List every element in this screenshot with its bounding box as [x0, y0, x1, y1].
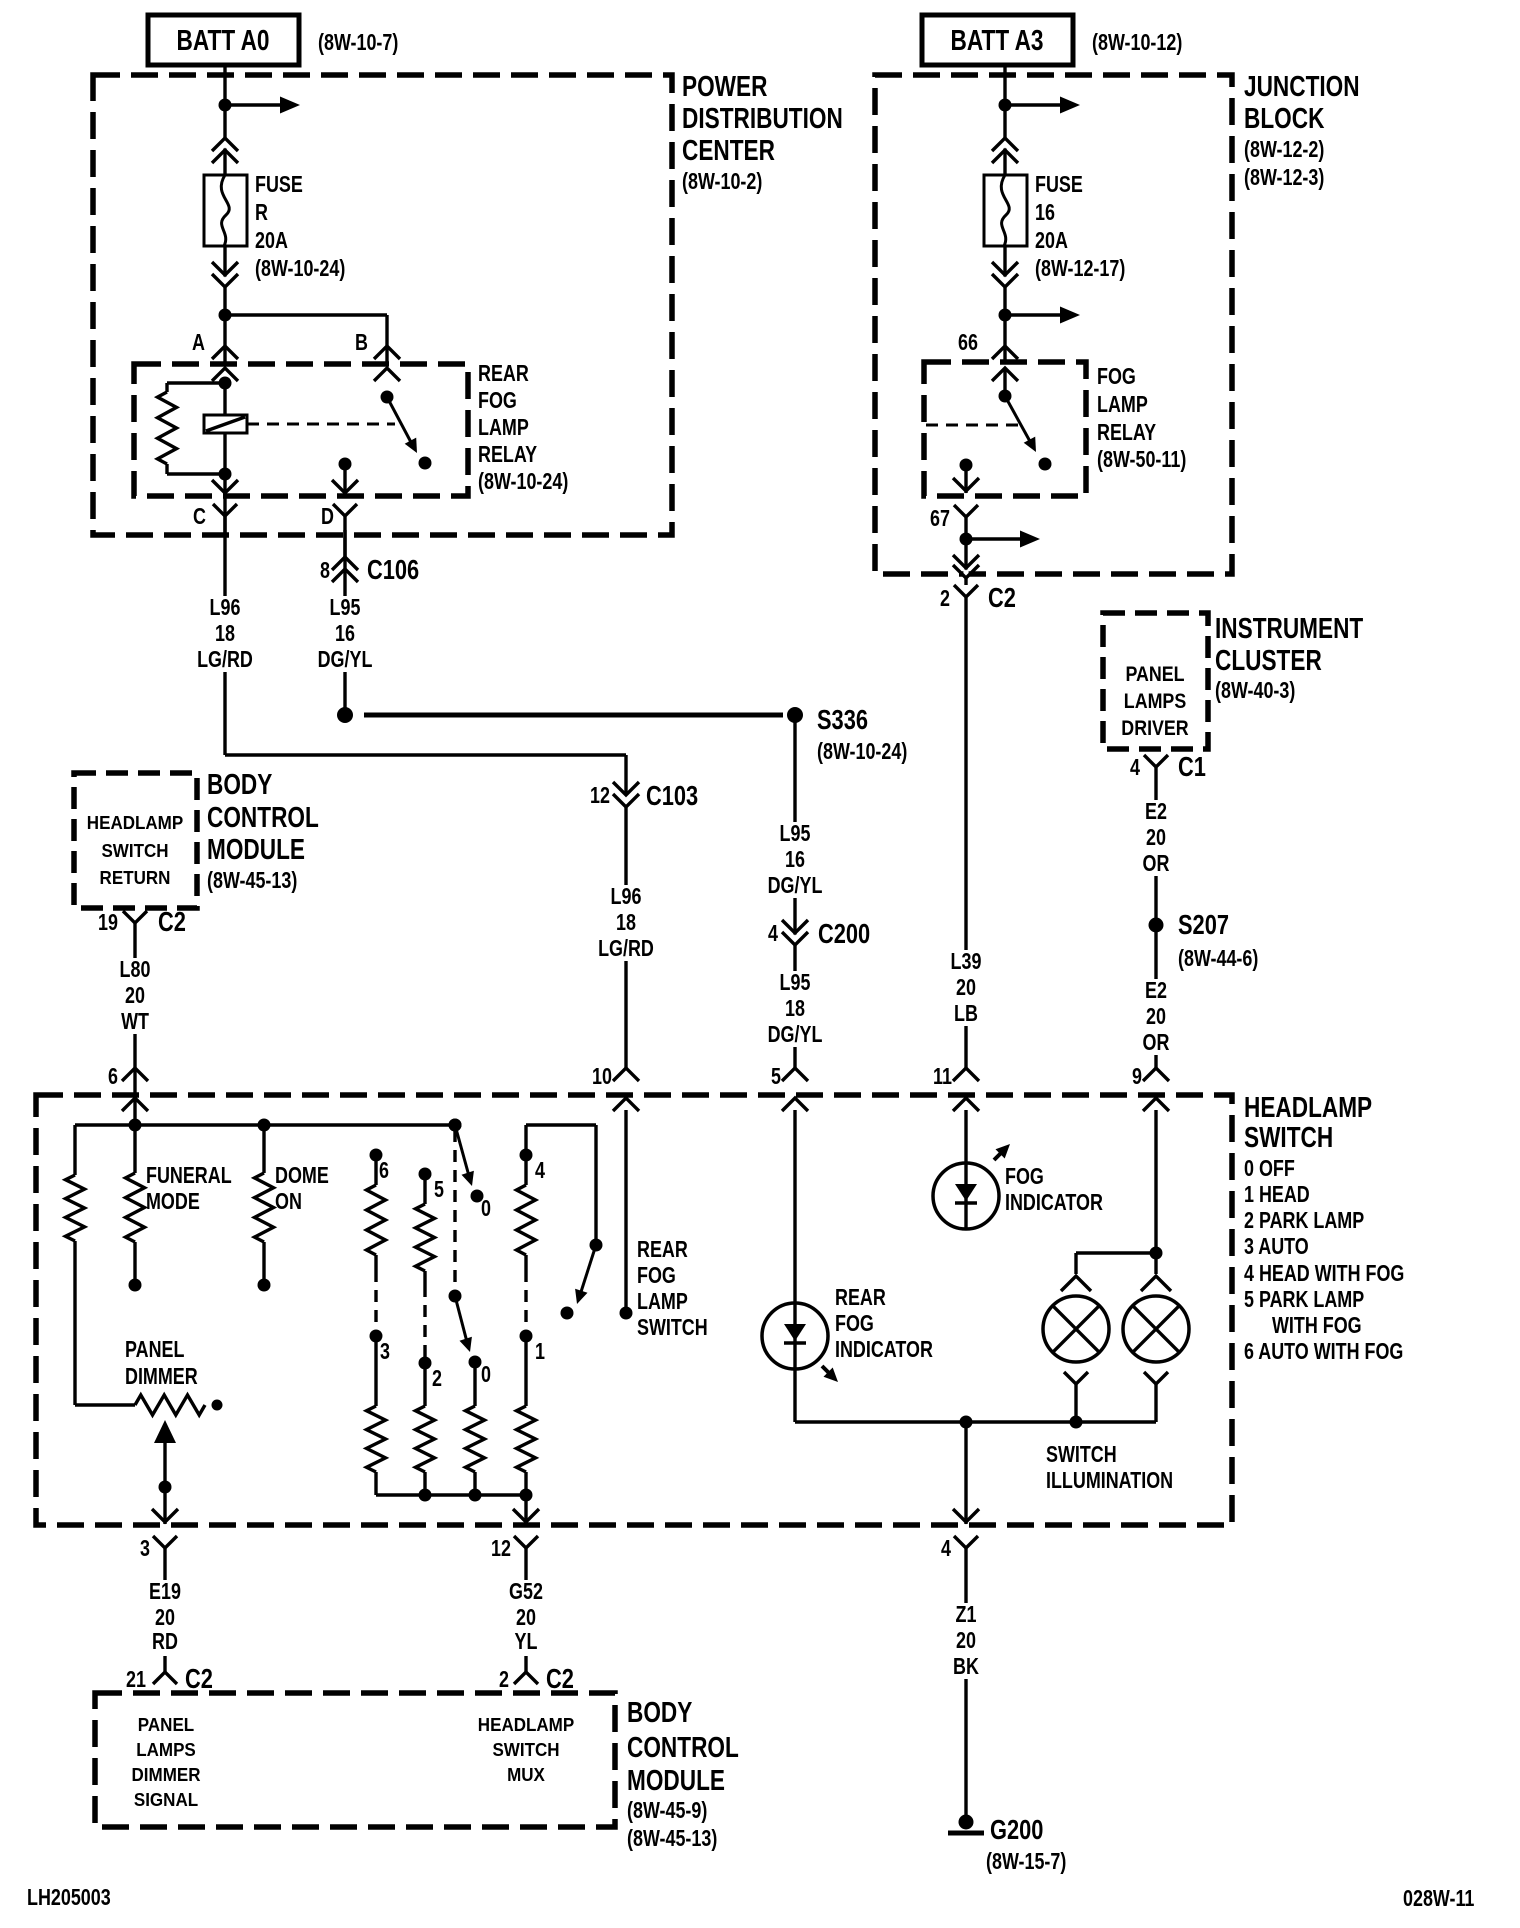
- svg-text:FOG: FOG: [835, 1311, 874, 1337]
- wire supply bus: [133, 1070, 136, 1125]
- svg-text:20: 20: [155, 1605, 175, 1631]
- lamp right connector top: [1154, 1253, 1157, 1274]
- svg-text:3 AUTO: 3 AUTO: [1244, 1234, 1309, 1260]
- svg-text:L39: L39: [951, 949, 982, 975]
- svg-text:3: 3: [380, 1339, 390, 1365]
- connector double chevron down: [1002, 277, 1007, 286]
- connector double chevron down: [222, 277, 227, 286]
- svg-text:16: 16: [785, 847, 805, 873]
- resistor bleed: [73, 1125, 76, 1175]
- resistor position 6/3: [370, 1149, 383, 1162]
- svg-text:FUSE: FUSE: [255, 172, 303, 198]
- svg-text:C: C: [193, 504, 206, 530]
- wire bus2 to rear fog switch: [526, 1123, 596, 1126]
- svg-text:CENTER: CENTER: [682, 133, 775, 166]
- svg-text:E19: E19: [149, 1579, 181, 1605]
- label wire L96 18 LG/RD: [195, 596, 257, 672]
- wire E19 down: [163, 1562, 166, 1660]
- svg-text:5 PARK LAMP: 5 PARK LAMP: [1244, 1287, 1364, 1313]
- pin B inside chevron: [374, 368, 400, 381]
- svg-text:L95: L95: [780, 821, 811, 847]
- wire resistor output bus: [376, 1493, 526, 1496]
- svg-text:LAMPS: LAMPS: [136, 1739, 196, 1760]
- svg-text:11: 11: [933, 1064, 952, 1090]
- rotary switch position column 0 upper: [449, 1119, 462, 1132]
- svg-text:CLUSTER: CLUSTER: [1215, 643, 1322, 676]
- wire L95 from C106: [343, 530, 346, 715]
- svg-text:HEADLAMP: HEADLAMP: [1244, 1090, 1372, 1123]
- svg-text:SWITCH: SWITCH: [101, 840, 168, 861]
- switch arm mid: [455, 1296, 467, 1342]
- wire L80 down: [133, 937, 136, 1070]
- svg-text:DG/YL: DG/YL: [768, 873, 823, 899]
- svg-text:19: 19: [98, 910, 118, 936]
- node splice after fuse: [219, 309, 232, 322]
- svg-text:20: 20: [1146, 1004, 1166, 1030]
- svg-text:G52: G52: [509, 1579, 543, 1605]
- svg-text:PANEL: PANEL: [125, 1337, 184, 1363]
- svg-text:FOG: FOG: [637, 1263, 676, 1289]
- svg-text:B: B: [355, 330, 368, 356]
- relay contact: [419, 457, 432, 470]
- label wire L95 16 DG/YL: [312, 596, 380, 672]
- svg-text:(8W-45-13): (8W-45-13): [627, 1826, 717, 1852]
- resistor DOME ON: [262, 1125, 265, 1173]
- svg-text:(8W-12-3): (8W-12-3): [1244, 165, 1324, 191]
- label wire E19 20 RD: [138, 1580, 192, 1656]
- node out bus 3: [469, 1489, 482, 1502]
- svg-text:20: 20: [1146, 825, 1166, 851]
- wire mux out to pin 12: [524, 1495, 527, 1524]
- svg-text:MUX: MUX: [507, 1764, 545, 1785]
- svg-text:(8W-10-12): (8W-10-12): [1092, 30, 1182, 56]
- rear fog switch pivot: [590, 1239, 603, 1252]
- contact 0 upper: [471, 1190, 484, 1203]
- svg-text:(8W-50-11): (8W-50-11): [1097, 447, 1186, 473]
- svg-text:SWITCH: SWITCH: [637, 1315, 708, 1341]
- dashed actuation link: [926, 424, 1020, 427]
- svg-text:OR: OR: [1143, 851, 1170, 877]
- box POWER DISTRIBUTION CENTER (dashed): [93, 75, 672, 535]
- svg-text:E2: E2: [1145, 799, 1167, 825]
- node bus left: [129, 1119, 142, 1132]
- svg-text:5: 5: [771, 1064, 781, 1090]
- wire pin 10 to rear fog switch: [624, 1110, 627, 1313]
- svg-text:DIMMER: DIMMER: [125, 1364, 198, 1390]
- svg-text:RELAY: RELAY: [478, 442, 537, 468]
- contact 0 mid: [469, 1356, 482, 1369]
- svg-text:(8W-40-3): (8W-40-3): [1215, 678, 1295, 704]
- dashed actuation link: [247, 423, 395, 426]
- svg-text:21: 21: [126, 1667, 146, 1693]
- svg-text:12: 12: [491, 1536, 511, 1562]
- svg-text:2 PARK LAMP: 2 PARK LAMP: [1244, 1208, 1364, 1234]
- svg-text:1 HEAD: 1 HEAD: [1244, 1182, 1310, 1208]
- wire Z1 to ground: [964, 1562, 967, 1822]
- svg-text:PANEL: PANEL: [138, 1714, 195, 1735]
- wire pin 9 to lamps: [1154, 1110, 1157, 1253]
- svg-text:2: 2: [940, 586, 950, 612]
- svg-text:YL: YL: [515, 1629, 538, 1655]
- svg-text:(8W-10-24): (8W-10-24): [478, 469, 568, 495]
- svg-text:PANEL: PANEL: [1125, 663, 1184, 687]
- svg-text:RELAY: RELAY: [1097, 420, 1156, 446]
- fuse R 20A: [204, 175, 247, 246]
- svg-text:1: 1: [535, 1339, 545, 1365]
- label wire L80 20 WT: [108, 958, 162, 1034]
- arrow rear fog indicator pointer: [822, 1366, 833, 1377]
- svg-text:4 HEAD WITH FOG: 4 HEAD WITH FOG: [1244, 1261, 1404, 1287]
- svg-text:18: 18: [785, 996, 805, 1022]
- svg-text:DOME: DOME: [275, 1163, 329, 1189]
- panel dimmer wiper contact: [212, 1400, 223, 1411]
- svg-text:REAR: REAR: [637, 1237, 688, 1263]
- svg-text:C2: C2: [988, 582, 1016, 613]
- wire illumination return bus: [793, 1369, 796, 1422]
- svg-text:4: 4: [1130, 755, 1140, 781]
- svg-text:C106: C106: [367, 554, 419, 585]
- rear fog switch arm: [580, 1245, 596, 1295]
- indicator REAR FOG INDICATOR: [793, 1110, 796, 1303]
- relay coil suppression resistor: [167, 381, 225, 384]
- svg-text:DG/YL: DG/YL: [318, 647, 373, 673]
- rear fog switch contact: [561, 1307, 574, 1320]
- svg-text:INDICATOR: INDICATOR: [1005, 1190, 1103, 1216]
- node splice top-right: [999, 99, 1012, 112]
- pin 66 inside chevron: [992, 368, 1018, 381]
- svg-text:10: 10: [592, 1064, 612, 1090]
- node out bus 4: [520, 1489, 533, 1502]
- svg-text:20: 20: [956, 975, 976, 1001]
- fog relay switch arm: [1005, 396, 1032, 445]
- label wire L95 16 DG/YL mid: [760, 822, 830, 898]
- box BODY CONTROL MODULE headlamp switch return (dashed): [74, 773, 197, 908]
- svg-text:2: 2: [499, 1667, 509, 1693]
- arrow feed continues right: [225, 103, 280, 106]
- svg-text:D: D: [321, 504, 334, 530]
- svg-text:C2: C2: [546, 1663, 574, 1694]
- svg-text:20A: 20A: [255, 228, 288, 254]
- svg-text:6: 6: [379, 1158, 389, 1184]
- wire L96 down from pin C: [223, 530, 226, 755]
- svg-text:WITH FOG: WITH FOG: [1272, 1313, 1362, 1339]
- resistor position 5/2: [419, 1168, 432, 1181]
- wire splice bus to S336: [364, 713, 783, 718]
- svg-text:(8W-10-24): (8W-10-24): [255, 256, 345, 282]
- svg-text:MODULE: MODULE: [207, 832, 305, 865]
- svg-text:LAMP: LAMP: [1097, 392, 1148, 418]
- svg-text:LG/RD: LG/RD: [197, 647, 253, 673]
- splice S336: [787, 707, 803, 723]
- label wire Z1 20 BK: [940, 1603, 992, 1679]
- node return lamp: [1070, 1416, 1083, 1429]
- svg-text:REAR: REAR: [835, 1285, 886, 1311]
- svg-text:C1: C1: [1178, 751, 1206, 782]
- arrow branch right from 67: [966, 537, 1020, 540]
- svg-text:REAR: REAR: [478, 361, 529, 387]
- box INSTRUMENT CLUSTER panel lamps driver (dashed): [1103, 613, 1208, 749]
- relay switch arm: [387, 397, 413, 446]
- label wire L39 20 LB: [938, 950, 994, 1026]
- svg-text:FOG: FOG: [1005, 1164, 1044, 1190]
- svg-text:JUNCTION: JUNCTION: [1244, 69, 1360, 102]
- label wire L96 18 LG/RD lower: [576, 885, 676, 961]
- resistor FUNERAL MODE: [133, 1125, 136, 1173]
- svg-text:4: 4: [768, 921, 778, 947]
- node junction to S336 bus: [337, 707, 353, 723]
- node out bus 2: [419, 1489, 432, 1502]
- svg-text:4: 4: [535, 1158, 545, 1184]
- box HEADLAMP SWITCH (dashed): [36, 1095, 1232, 1525]
- svg-text:BODY: BODY: [627, 1695, 692, 1728]
- box BODY CONTROL MODULE bottom (dashed): [95, 1693, 615, 1827]
- svg-text:POWER: POWER: [682, 69, 768, 102]
- svg-text:FOG: FOG: [478, 388, 517, 414]
- svg-text:G200: G200: [990, 1814, 1043, 1845]
- svg-text:BLOCK: BLOCK: [1244, 101, 1325, 134]
- lamp switch illumination left: [1043, 1296, 1109, 1362]
- svg-text:C2: C2: [158, 906, 186, 937]
- svg-text:WT: WT: [121, 1009, 149, 1035]
- svg-text:LH205003: LH205003: [27, 1885, 111, 1911]
- svg-text:66: 66: [958, 330, 978, 356]
- svg-text:A: A: [192, 330, 205, 356]
- node bus switch: [449, 1119, 462, 1132]
- svg-text:0 OFF: 0 OFF: [1244, 1156, 1295, 1182]
- svg-text:HEADLAMP: HEADLAMP: [478, 1714, 575, 1735]
- svg-text:BODY: BODY: [207, 767, 272, 800]
- svg-text:L95: L95: [780, 970, 811, 996]
- relay coil K1: [223, 383, 226, 415]
- resistor position 4/1: [524, 1125, 527, 1155]
- svg-text:C2: C2: [185, 1663, 213, 1694]
- wire L96 horizontal run to C103: [225, 753, 626, 756]
- svg-text:3: 3: [140, 1536, 150, 1562]
- node relay output D: [339, 458, 352, 471]
- svg-text:MODULE: MODULE: [627, 1763, 725, 1796]
- svg-text:9: 9: [1132, 1064, 1142, 1090]
- svg-text:20: 20: [956, 1628, 976, 1654]
- svg-text:SIGNAL: SIGNAL: [134, 1789, 198, 1810]
- splice S207: [1149, 918, 1164, 933]
- wire L95 from S336 down: [793, 715, 796, 1070]
- svg-text:(8W-10-2): (8W-10-2): [682, 169, 762, 195]
- wire wiper out to pin 3: [163, 1487, 166, 1524]
- pin A inside chevron: [212, 368, 238, 381]
- svg-text:6: 6: [108, 1064, 118, 1090]
- svg-text:(8W-45-9): (8W-45-9): [627, 1798, 707, 1824]
- svg-text:C103: C103: [646, 780, 698, 811]
- svg-text:HEADLAMP: HEADLAMP: [87, 812, 184, 833]
- connector double chevron up: [222, 140, 227, 149]
- wire G52 down: [524, 1562, 527, 1660]
- arrow feed continues right: [1005, 103, 1060, 106]
- svg-text:2: 2: [432, 1366, 442, 1392]
- svg-text:LAMP: LAMP: [637, 1289, 688, 1315]
- lamp left connector bottom: [1064, 1372, 1088, 1384]
- ground G200: [959, 1815, 974, 1830]
- svg-text:20: 20: [125, 983, 145, 1009]
- label wire E2 20 OR upper: [1130, 800, 1182, 876]
- wire L96 to headlamp switch: [624, 807, 627, 1070]
- svg-text:BK: BK: [953, 1654, 979, 1680]
- label wire E2 20 OR lower: [1130, 979, 1182, 1055]
- switch arm upper: [455, 1125, 469, 1176]
- label wire L95 18 DG/YL lower: [760, 971, 830, 1047]
- svg-text:FUSE: FUSE: [1035, 172, 1083, 198]
- svg-text:S336: S336: [817, 704, 868, 735]
- svg-text:FUNERAL: FUNERAL: [146, 1163, 232, 1189]
- svg-text:12: 12: [590, 783, 610, 809]
- svg-text:(8W-45-13): (8W-45-13): [207, 868, 297, 894]
- svg-text:DIMMER: DIMMER: [132, 1764, 201, 1785]
- connector double chevron up: [1002, 140, 1007, 149]
- svg-text:CONTROL: CONTROL: [627, 1730, 739, 1763]
- svg-text:028W-11: 028W-11: [1403, 1886, 1474, 1912]
- svg-text:L80: L80: [120, 957, 151, 983]
- wire L39 down to headlamp switch: [964, 611, 967, 1070]
- svg-text:E2: E2: [1145, 978, 1167, 1004]
- svg-text:(8W-10-7): (8W-10-7): [318, 30, 398, 56]
- svg-text:INDICATOR: INDICATOR: [835, 1337, 933, 1363]
- connector C2 pin 2 double chevron: [963, 570, 968, 577]
- wire BATT A3 feed: [1003, 65, 1006, 175]
- svg-text:18: 18: [616, 910, 636, 936]
- box JUNCTION BLOCK (dashed): [875, 75, 1232, 574]
- svg-text:L96: L96: [210, 595, 241, 621]
- lamp switch illumination right: [1123, 1296, 1189, 1362]
- node dome on end: [258, 1279, 271, 1292]
- svg-text:BATT A0: BATT A0: [177, 23, 270, 56]
- svg-text:MODE: MODE: [146, 1189, 200, 1215]
- svg-text:SWITCH: SWITCH: [492, 1739, 559, 1760]
- svg-text:20A: 20A: [1035, 228, 1068, 254]
- power feed box BATT A0: [148, 15, 299, 65]
- label wire G52 20 YL: [498, 1580, 554, 1656]
- svg-text:SWITCH: SWITCH: [1046, 1442, 1117, 1468]
- svg-text:DISTRIBUTION: DISTRIBUTION: [682, 101, 843, 134]
- svg-text:16: 16: [1035, 200, 1055, 226]
- svg-text:CONTROL: CONTROL: [207, 800, 319, 833]
- svg-text:BATT A3: BATT A3: [951, 23, 1044, 56]
- lamp right connector bottom: [1144, 1372, 1168, 1384]
- arrow fog indicator pointer: [994, 1149, 1005, 1160]
- svg-text:4: 4: [941, 1536, 951, 1562]
- svg-text:(8W-44-6): (8W-44-6): [1178, 946, 1258, 972]
- svg-text:16: 16: [335, 621, 355, 647]
- svg-text:(8W-10-24): (8W-10-24): [817, 739, 907, 765]
- svg-text:6 AUTO WITH FOG: 6 AUTO WITH FOG: [1244, 1339, 1403, 1365]
- fuse 16 20A: [984, 175, 1027, 246]
- svg-text:L96: L96: [611, 884, 642, 910]
- arrow branch right: [1005, 313, 1060, 316]
- node rear fog switch input: [620, 1307, 633, 1320]
- wire fuse to relay: [1003, 246, 1006, 362]
- svg-text:LAMPS: LAMPS: [1124, 690, 1186, 714]
- fog relay switch pivot: [1003, 368, 1006, 396]
- wire BATT A0 feed: [223, 65, 226, 175]
- node wiper out: [159, 1481, 172, 1494]
- svg-text:LB: LB: [954, 1001, 978, 1027]
- svg-text:5: 5: [434, 1177, 444, 1203]
- svg-text:RD: RD: [152, 1629, 178, 1655]
- fog relay contact: [1039, 458, 1052, 471]
- node splice top-left: [219, 99, 232, 112]
- svg-text:ON: ON: [275, 1189, 302, 1215]
- wire fuse to relay: [223, 246, 226, 364]
- svg-text:(8W-15-7): (8W-15-7): [986, 1849, 1066, 1875]
- svg-text:FOG: FOG: [1097, 364, 1136, 390]
- node return fog ind: [960, 1416, 973, 1429]
- wire branch to relay pin B: [225, 313, 387, 316]
- chevron D at relay edge: [332, 480, 358, 493]
- node bus dome: [258, 1119, 271, 1132]
- svg-text:67: 67: [930, 506, 950, 532]
- svg-text:S207: S207: [1178, 909, 1229, 940]
- wire down to C2: [964, 531, 967, 585]
- svg-text:L95: L95: [330, 595, 361, 621]
- svg-text:LG/RD: LG/RD: [598, 936, 654, 962]
- wire E2 down: [1154, 781, 1157, 1070]
- svg-text:20: 20: [516, 1605, 536, 1631]
- svg-text:INSTRUMENT: INSTRUMENT: [1215, 611, 1363, 644]
- svg-text:SWITCH: SWITCH: [1244, 1120, 1333, 1153]
- svg-text:0: 0: [481, 1362, 491, 1388]
- chevron C at relay edge: [212, 480, 238, 493]
- wire output down to pin 67: [964, 465, 967, 493]
- svg-text:RETURN: RETURN: [100, 867, 171, 888]
- node splice after fuse 16: [999, 309, 1012, 322]
- svg-text:18: 18: [215, 621, 235, 647]
- svg-text:C200: C200: [818, 918, 870, 949]
- svg-text:(8W-12-2): (8W-12-2): [1244, 137, 1324, 163]
- svg-text:DG/YL: DG/YL: [768, 1022, 823, 1048]
- wire relay output down: [343, 464, 346, 493]
- svg-text:R: R: [255, 200, 268, 226]
- relay FOG LAMP RELAY (dashed): [924, 362, 1086, 496]
- svg-text:LAMP: LAMP: [478, 415, 529, 441]
- relay REAR FOG LAMP RELAY (dashed): [134, 364, 468, 496]
- node lamp tee: [1150, 1247, 1163, 1260]
- svg-text:Z1: Z1: [956, 1602, 977, 1628]
- svg-text:(8W-12-17): (8W-12-17): [1035, 256, 1125, 282]
- resistor position 0 bottom: [473, 1362, 476, 1406]
- lamp left connector top: [1061, 1276, 1091, 1291]
- svg-text:ILLUMINATION: ILLUMINATION: [1046, 1468, 1173, 1494]
- panel dimmer wiper arrow: [154, 1420, 176, 1443]
- indicator FOG INDICATOR: [964, 1110, 967, 1163]
- relay switch pivot: [381, 391, 394, 404]
- switch arm mid pivot: [449, 1290, 462, 1303]
- svg-text:OR: OR: [1143, 1030, 1170, 1056]
- node funeral mode end: [129, 1279, 142, 1292]
- svg-text:DRIVER: DRIVER: [1121, 717, 1188, 741]
- svg-text:0: 0: [481, 1196, 491, 1222]
- node splice 67: [960, 533, 973, 546]
- node fog relay output: [960, 459, 973, 472]
- panel dimmer resistor: [75, 1403, 135, 1406]
- wire return to pin 4: [964, 1422, 967, 1524]
- node relay coil bottom: [219, 468, 232, 481]
- svg-text:8: 8: [320, 558, 330, 584]
- power feed box BATT A3: [922, 15, 1073, 65]
- node relay coil top: [219, 377, 232, 390]
